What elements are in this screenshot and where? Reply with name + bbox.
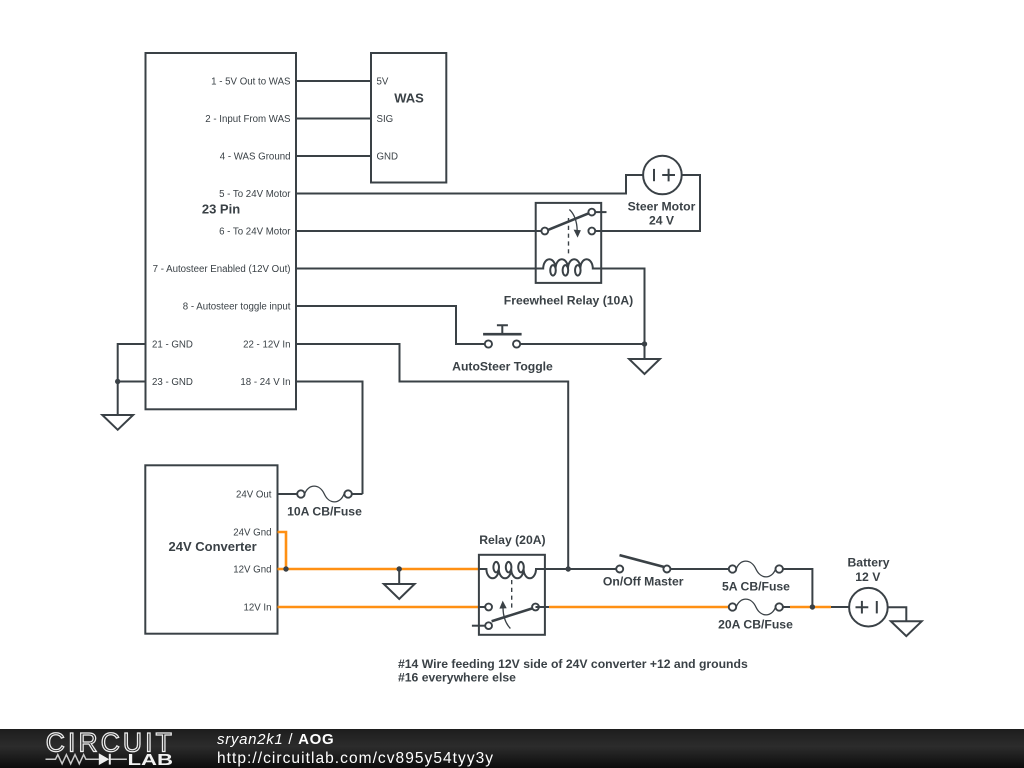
relay K2 box <box>479 555 545 635</box>
battery minus bar <box>876 601 878 613</box>
relay K1 actuation arrow <box>569 210 577 231</box>
orange wire relay K2 to fuse F3 <box>549 606 729 609</box>
svg-text:sryan2k1 / AOG: sryan2k1 / AOG <box>217 731 334 748</box>
wire pin23 GND <box>118 381 146 383</box>
switch SW2 On/Off Master blade <box>620 555 664 567</box>
svg-text:8 - Autosteer toggle input: 8 - Autosteer toggle input <box>183 302 291 313</box>
switch SW2 terminal left <box>616 566 623 573</box>
junction 24Vgnd-12Vgnd <box>283 566 288 571</box>
WAS box U2 <box>371 53 446 183</box>
wire relay K1 coil to ground node <box>601 269 644 345</box>
relay K2 terminal right <box>532 604 539 611</box>
svg-text:6 - To 24V Motor: 6 - To 24V Motor <box>219 227 291 238</box>
wire relay K2 coil to on/off switch <box>545 568 616 570</box>
wire fuse F1 right <box>352 493 363 495</box>
junction left gnd <box>115 379 120 384</box>
wire fuse F2 to battery node <box>783 569 812 607</box>
fuse F3 terminal right <box>776 603 783 610</box>
relay K1 dashed link <box>568 218 570 257</box>
svg-text:1 - 5V Out to WAS: 1 - 5V Out to WAS <box>211 77 291 88</box>
svg-text:On/Off Master: On/Off Master <box>603 575 684 589</box>
motor M1 Steer Motor circle <box>643 156 682 195</box>
switch SW2 terminal right <box>663 566 670 573</box>
svg-text:23 Pin: 23 Pin <box>202 202 240 217</box>
svg-text:5 - To 24V Motor: 5 - To 24V Motor <box>219 189 291 200</box>
svg-text:SIG: SIG <box>377 114 394 125</box>
junction mid ground <box>397 566 402 571</box>
orange wire 12V Gnd bus <box>278 568 479 571</box>
ground G4 <box>891 621 922 636</box>
relay K2 actuation arrow <box>503 608 510 629</box>
converter U3 box <box>145 465 277 633</box>
fuse F1 terminal left <box>297 490 304 497</box>
switch SW1 terminal left <box>485 340 492 347</box>
switch SW1 AutoSteer Toggle button <box>483 333 521 336</box>
svg-text:AutoSteer Toggle: AutoSteer Toggle <box>452 359 553 373</box>
logo resistor-diode strip <box>46 755 127 764</box>
wire pin7 to relay K1 coil <box>296 268 536 270</box>
ground G1 <box>117 382 119 416</box>
wire converter 24V Out to fuse F1 <box>278 493 298 495</box>
relay K2 left output stub <box>479 606 485 608</box>
motor minus bar <box>653 169 655 181</box>
relay K1 switch arm <box>548 213 589 230</box>
wire pin22 12V down to relay K2 <box>296 344 568 569</box>
svg-text:22 - 12V In: 22 - 12V In <box>243 340 290 351</box>
svg-text:2 - Input From WAS: 2 - Input From WAS <box>205 114 291 125</box>
wire battery stub <box>831 606 849 608</box>
wire pin18 24V down to fuse F1 <box>296 382 363 495</box>
wire pin4 to WAS GND <box>296 155 371 157</box>
wire relay K2 out stub <box>536 606 550 608</box>
wire pin5 to motor <box>296 175 643 194</box>
fuse F3 terminal left <box>729 603 736 610</box>
svg-text:#14 Wire feeding 12V side of 2: #14 Wire feeding 12V side of 24V convert… <box>398 657 748 671</box>
svg-text:10A CB/Fuse: 10A CB/Fuse <box>287 505 362 519</box>
relay K1 Freewheel box <box>536 203 602 283</box>
svg-text:12V Gnd: 12V Gnd <box>233 565 271 576</box>
relay K1 coil <box>536 259 602 275</box>
relay K2 dashed link <box>511 580 513 609</box>
junction battery node <box>810 604 815 609</box>
wire pin1 to WAS 5V <box>296 80 371 82</box>
fuse F2 terminal right <box>776 565 783 572</box>
battery plus sign <box>856 601 869 614</box>
IC U1 23 Pin box <box>146 53 297 409</box>
fuse F1 10A squiggle <box>305 486 344 502</box>
orange wire fuse F3 to battery <box>790 606 831 609</box>
svg-text:Battery: Battery <box>848 556 890 570</box>
svg-text:12V In: 12V In <box>243 603 271 614</box>
svg-text:LAB: LAB <box>128 752 174 768</box>
relay K2 terminal left <box>485 604 492 611</box>
ground G3 <box>644 344 646 359</box>
relay K1 terminal left <box>541 228 548 235</box>
svg-text:12 V: 12 V <box>855 570 881 584</box>
wire battery to ground <box>888 607 907 621</box>
wire motor to relay NO contact <box>595 175 700 231</box>
switch SW1 terminal right <box>513 340 520 347</box>
wire pin6 to relay K1 <box>296 230 541 232</box>
svg-text:5A CB/Fuse: 5A CB/Fuse <box>722 580 790 594</box>
svg-text:24V Converter: 24V Converter <box>169 539 257 554</box>
svg-text:18 - 24 V In: 18 - 24 V In <box>240 377 290 388</box>
junction 12V feed <box>566 566 571 571</box>
fuse F2 terminal left <box>729 565 736 572</box>
svg-text:5V: 5V <box>377 77 389 88</box>
wire on/off to fuse F2 <box>670 568 728 570</box>
relay K2 switch arm <box>492 608 533 621</box>
junction toggle ground node <box>642 341 647 346</box>
svg-text:4 - WAS Ground: 4 - WAS Ground <box>220 152 291 163</box>
wire pin8 to toggle <box>296 306 485 344</box>
motor plus sign <box>662 169 675 182</box>
svg-text:7 - Autosteer Enabled (12V Out: 7 - Autosteer Enabled (12V Out) <box>153 264 291 275</box>
wire pin21 GND <box>118 344 146 382</box>
svg-text:Freewheel Relay (10A): Freewheel Relay (10A) <box>504 294 633 308</box>
svg-text:Relay (20A): Relay (20A) <box>479 533 545 547</box>
orange wire 24V Gnd branch <box>278 532 287 569</box>
svg-text:WAS: WAS <box>394 90 424 105</box>
relay K2 NC stub <box>472 625 485 627</box>
wire toggle to ground node <box>520 343 645 345</box>
fuse F1 terminal right <box>344 490 351 497</box>
svg-text:24V Out: 24V Out <box>236 490 272 501</box>
svg-text:23 - GND: 23 - GND <box>152 377 193 388</box>
relay K2 coil (inverted) <box>479 562 545 578</box>
orange wire 12V In bus <box>278 606 479 609</box>
ground G2 <box>398 569 400 584</box>
svg-text:20A CB/Fuse: 20A CB/Fuse <box>718 618 793 632</box>
relay K1 terminal NO <box>588 209 595 216</box>
svg-text:21 - GND: 21 - GND <box>152 340 193 351</box>
svg-text:http://circuitlab.com/cv895y54: http://circuitlab.com/cv895y54tyy3y <box>217 750 494 767</box>
svg-text:GND: GND <box>377 152 399 163</box>
fuse F2 5A squiggle <box>736 561 775 577</box>
svg-text:#16 everywhere else: #16 everywhere else <box>398 671 516 685</box>
svg-text:24V Gnd: 24V Gnd <box>233 528 271 539</box>
relay K1 NO stub <box>595 211 606 213</box>
wire pin2 to WAS SIG <box>296 118 371 120</box>
svg-text:Steer Motor: Steer Motor <box>628 199 696 213</box>
wire fuse F3 right stub <box>783 606 791 608</box>
svg-text:24 V: 24 V <box>649 214 675 228</box>
fuse F3 20A squiggle <box>736 599 775 615</box>
relay K2 terminal NC <box>485 622 492 629</box>
relay K1 terminal common <box>588 228 595 235</box>
battery V1 circle <box>849 588 888 627</box>
